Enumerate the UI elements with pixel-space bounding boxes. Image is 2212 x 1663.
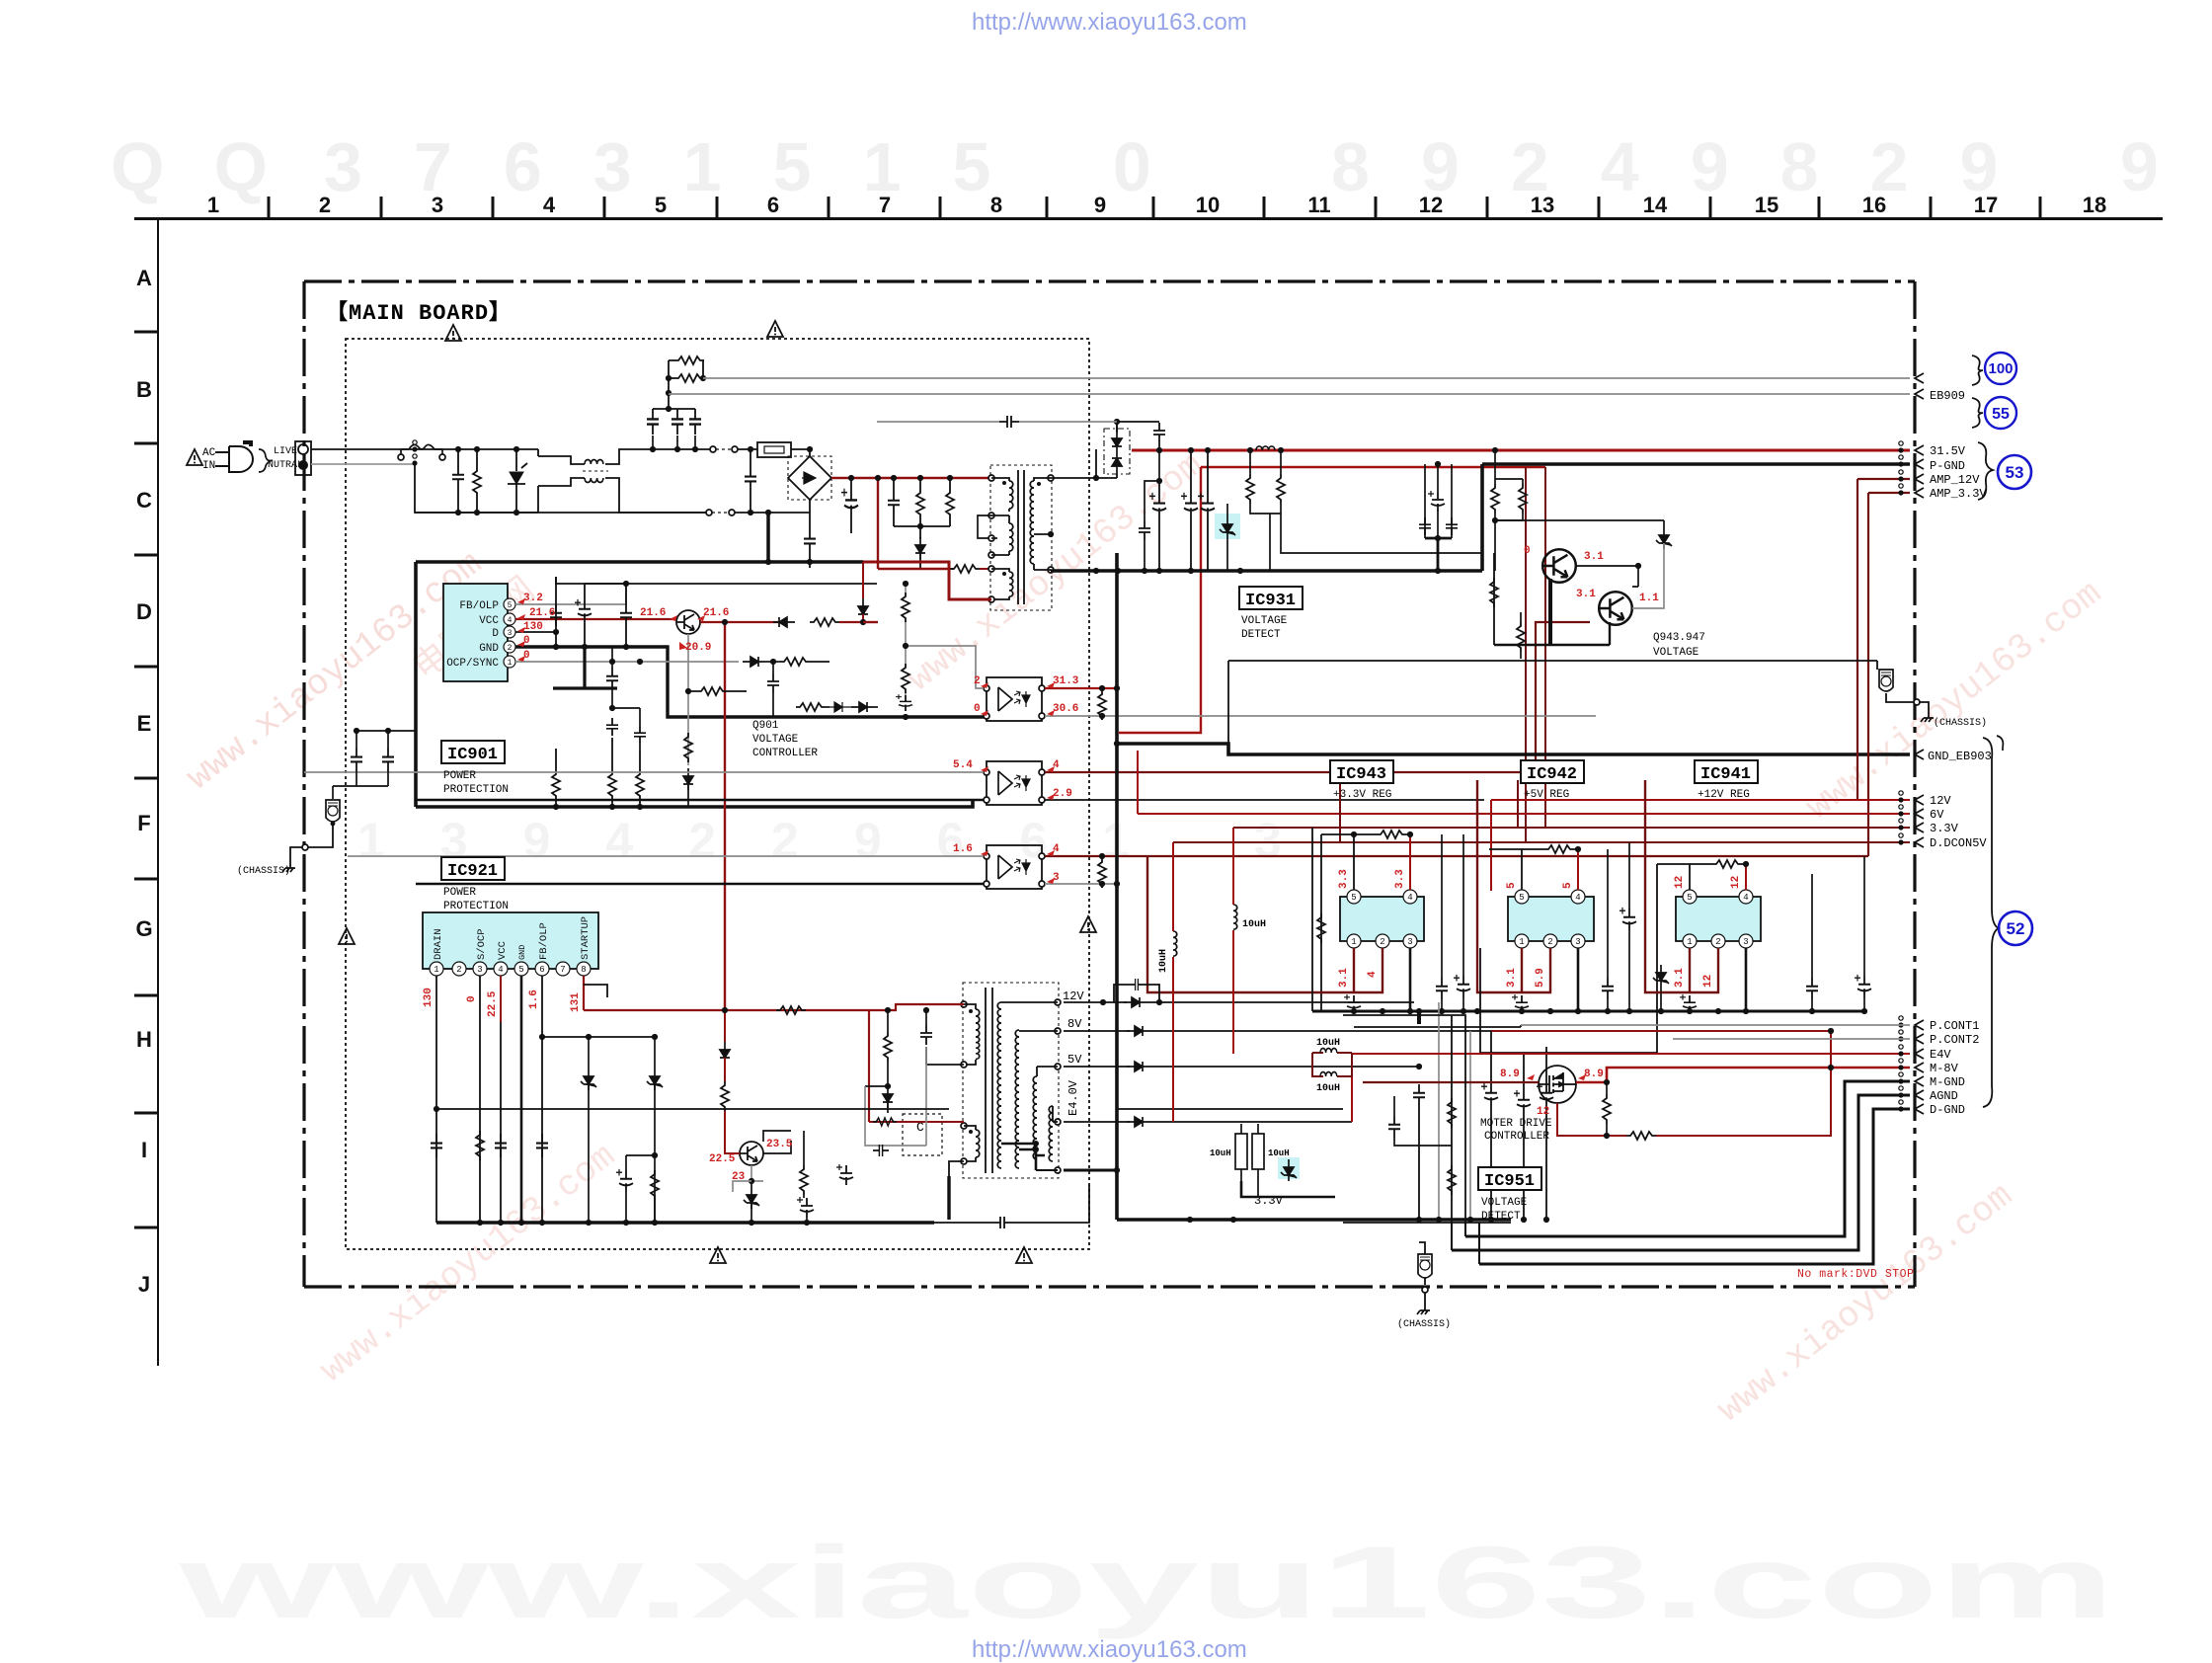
twin diode dash-dot box [1104,429,1130,474]
svg-text:4: 4 [1575,893,1580,903]
svg-text:FB/OLP: FB/OLP [459,600,499,612]
primary winding 2 [1009,523,1013,551]
primary bottom wire to thick black [949,1161,964,1176]
frame inner vertical [1451,1015,1453,1223]
IC931 detect line down [1269,514,1271,571]
svg-text:IC943: IC943 [1336,765,1386,784]
IC931 zener [1220,516,1235,538]
D-GND path [1479,1109,1910,1264]
svg-text:16: 16 [1862,193,1886,217]
junction dots live [455,446,461,452]
AC plug symbol [215,446,253,472]
P.CONT wires under regulators [1354,1026,1521,1028]
tp M-GND [1898,1072,1903,1084]
svg-text:3: 3 [1743,937,1748,947]
regulators bottom gnd bus [1312,1010,1866,1013]
resistor right of mosfet [1603,1094,1611,1124]
3.3V dark rail [1233,827,1910,829]
opto2 output dark red [1045,622,1590,772]
diode in row [851,702,873,712]
svg-text:G: G [135,916,152,941]
svg-text:A: A [136,266,152,290]
IC943 left frame wire [1320,834,1322,1011]
IC921 pin6 drop [541,976,543,1223]
wire from line669 to connector [1876,661,1878,670]
AGND path [1452,1095,1910,1250]
svg-text:GND: GND [517,945,527,960]
tap 12V [1055,999,1061,1005]
varistor [510,472,523,484]
red rail inductor [1256,446,1275,450]
fuse resistor box [757,442,791,457]
zener 2 [647,1069,663,1090]
svg-text:22.5: 22.5 [487,990,499,1017]
svg-text:AC: AC [202,447,216,459]
svg-text:(CHASSIS): (CHASSIS) [1934,717,1987,729]
IC901 label box [441,741,505,763]
arrow 31.5V [1915,445,1924,455]
choke body [538,456,585,486]
tp 31.5V [1898,441,1903,453]
wire from secondary to diode [1096,448,1104,450]
warning triangle mid right [1080,916,1096,932]
OCP/SYNC gray wire [515,661,739,663]
IC921 rotated pin labels [433,916,592,960]
svg-text:12: 12 [1537,1106,1549,1118]
svg-text:VOLTAGE: VOLTAGE [752,734,799,746]
svg-text:E4.0V: E4.0V [1066,1079,1080,1116]
red verticals mid [1172,992,1174,1122]
fb line across [542,1036,655,1038]
line to zener [1495,519,1664,521]
svg-text:C: C [136,488,152,513]
svg-text:www.xiaoyu163.com: www.xiaoyu163.com [178,1526,2115,1640]
P.CONT1 gray wire [1521,1024,1910,1026]
tp AMP_3.3V [1898,484,1903,496]
twin diode bottom [1112,452,1122,474]
svg-text:37631515 0: 37631515 0 [324,128,1203,205]
red feed line 2 to primary [878,568,948,570]
secondary tap mid [1034,533,1051,535]
resistors under IC931 [1490,578,1498,607]
svg-text:OCP/SYNC: OCP/SYNC [446,658,499,670]
warning triangle top 2 [767,321,783,337]
8V tap wire [1064,1030,1130,1032]
svg-text:5: 5 [1506,882,1518,889]
wire aux to opto [865,1047,926,1146]
svg-text:21.6: 21.6 [529,607,555,619]
svg-text:GND_EB903: GND_EB903 [1928,750,1992,763]
E4V out red [1352,1054,1910,1122]
IC921 bottom thick bus [436,1221,934,1224]
red arrows for annotations [517,598,1586,1080]
IC943 body [1340,897,1424,941]
dark red out rail to left [1147,856,1328,992]
svg-text:(CHASSIS): (CHASSIS) [1397,1318,1451,1330]
inductors vertical mid [1173,931,1177,956]
open circles + dashed jumper on live [710,446,716,452]
IC951 gnd bus bottom [1465,1222,1511,1224]
FB/OLP wire [515,584,626,604]
tp P-GND [1898,455,1903,467]
svg-text:B: B [136,377,152,402]
svg-text:VOLTAGE: VOLTAGE [1241,615,1288,627]
IC921 pin circles [430,962,591,976]
svg-text:130: 130 [523,621,543,633]
opto1 resistor right [1098,690,1106,720]
line X-cap cluster top [653,408,695,410]
IC942 caps right [1602,978,1614,999]
chassis connector right [1878,669,1880,671]
secondary col2 [1015,1030,1019,1058]
secondary bottom [1048,567,1054,573]
primary coil 1 [964,1004,976,1009]
Q901 base resistor down [687,634,689,765]
svg-text:2: 2 [974,675,981,687]
IC943 out red down [1328,948,1354,992]
Q901 transistor [676,610,700,634]
brace 53 [1978,442,1993,500]
svg-text:3.3V: 3.3V [1930,822,1959,835]
wire live [311,448,538,450]
resistor [780,658,810,666]
svg-text:12: 12 [1674,876,1686,889]
tp D-GND [1898,1100,1903,1112]
svg-text:+12V REG: +12V REG [1698,789,1750,801]
IC931 out line [1281,514,1482,553]
primary coil 2 [961,1123,967,1129]
svg-text:7: 7 [879,193,891,217]
snubber res 1 [916,489,924,518]
red horiz from IC921 startup [584,1009,869,1011]
svg-text:0: 0 [523,650,530,662]
res on pin3 [476,1131,484,1160]
svg-text:POWER: POWER [443,887,476,899]
C jumper dashed box [903,1114,942,1155]
svg-text:6V: 6V [1930,808,1944,822]
12V red rail [1491,799,1910,801]
5V diode [1127,1062,1148,1071]
zener at Q943 [1656,527,1672,549]
IC901 section thick frame left [414,562,418,807]
svg-text:10uH: 10uH [1210,1148,1231,1158]
red 31.5V rail [1132,449,1910,452]
svg-text:D: D [136,599,152,624]
F-row connector [326,800,340,822]
IC943 ecap out [1344,994,1361,1013]
tp P.CONT2 [1898,1030,1903,1042]
svg-text:F: F [137,811,150,835]
primary tap [988,513,994,518]
ruler left axis [157,219,159,1367]
arrow AMP_12V [1915,474,1924,484]
red feed net to regulators [1201,466,1545,468]
row tick marks [134,332,158,1227]
rectifier output caps [1413,1084,1425,1106]
svg-text:DETECT: DETECT [1481,1211,1521,1223]
svg-text:3.1: 3.1 [1674,968,1686,988]
ecap mid [616,1169,633,1192]
svg-text:8: 8 [581,965,586,975]
svg-text:E4V: E4V [1930,1048,1951,1062]
svg-text:MOTER DRIVE: MOTER DRIVE [1480,1118,1552,1130]
svg-text:GND: GND [479,643,499,655]
sense resistor pair at 31.5V rail [1495,450,1523,484]
big brace 52 [1983,738,1999,1107]
mosfet source down + red loop [1557,1103,1626,1136]
svg-text:6: 6 [767,193,779,217]
svg-text:IC942: IC942 [1527,765,1577,784]
warning triangle mid (G row) [339,928,355,944]
svg-text:1: 1 [1519,937,1524,947]
svg-text:18: 18 [2083,193,2106,217]
IC942 body [1508,897,1594,941]
cap mid [606,668,618,689]
svg-text:【MAIN BOARD】: 【MAIN BOARD】 [326,300,512,326]
svg-text:4: 4 [1743,893,1748,903]
tap jog [978,515,991,538]
pin8 black stub right [584,985,607,997]
opto3 in wires [348,855,984,857]
12V reg out rail left drop [1645,780,1661,992]
bracket GND_EB903 [1997,736,2003,751]
AMP_3.3V dark red wire [1868,492,1910,494]
IC942 5V feed from 12V? vertical [1577,814,1579,849]
cap in gray wire [999,416,1019,428]
svg-text:http://www.xiaoyu163.com: http://www.xiaoyu163.com [972,1636,1247,1663]
cap across after jumper [750,449,751,513]
main vertical thick bus x1131 [1115,553,1119,1220]
svg-text:31.5V: 31.5V [1930,444,1966,458]
bridge minus to return [809,512,810,514]
opto2 lower black [1045,799,1484,801]
arrow AGND [1915,1090,1924,1100]
sec rail caps right [1198,493,1215,517]
thick drop from frame to transformer primary gnd [863,562,991,599]
svg-text:52: 52 [2007,919,2025,938]
svg-text:3.3: 3.3 [1394,869,1406,889]
diode top feeds up [1117,422,1159,433]
svg-text:2: 2 [1380,937,1384,947]
svg-text:12: 12 [1419,193,1443,217]
gray feedback wire top [877,421,1117,423]
opto1 in top wire [907,646,984,688]
svg-text:http://www.xiaoyu163.com: http://www.xiaoyu163.com [972,9,1247,36]
svg-text:4: 4 [1367,971,1379,978]
svg-text:21.6: 21.6 [703,607,729,619]
svg-text:Q943.947: Q943.947 [1653,632,1705,644]
GND pin thick wire [515,647,987,717]
D.DCON5V dark rail [1173,841,1910,843]
svg-text:DETECT: DETECT [1241,629,1281,641]
svg-text:4: 4 [498,965,503,975]
cap on pin4 [495,1134,507,1157]
IC942 out [1493,948,1522,992]
arrow M-8V [1915,1063,1924,1072]
svg-text:CONTROLLER: CONTROLLER [752,748,818,759]
svg-text:5: 5 [508,601,513,610]
bottom connector symbol [1418,1254,1432,1278]
bridge rectifier D901 dashed box [788,456,831,500]
pink diagonal watermark left [180,444,2110,1430]
IC943 top feed wires [1321,834,1354,890]
svg-text:10uH: 10uH [1316,1083,1340,1094]
IC921 pin5 drop [520,976,523,1223]
primary winding 1 [991,478,1009,481]
svg-text:POWER: POWER [443,770,476,782]
svg-text:3.3: 3.3 [1338,869,1350,889]
svg-text:12V: 12V [1063,990,1084,1003]
svg-text:VCC: VCC [497,941,509,960]
arrow P.CONT2 [1915,1034,1924,1044]
svg-text:12V: 12V [1930,794,1951,808]
MOSFET Q951 [1539,1066,1576,1103]
svg-text:10uH: 10uH [1158,949,1169,973]
svg-text:4: 4 [508,616,513,625]
T902 primary pin top [961,1001,967,1007]
E4V diode [1127,1117,1148,1127]
svg-text:I: I [141,1138,147,1162]
out rail to left x1512 [1477,780,1493,992]
svg-text:10uH: 10uH [1316,1038,1340,1049]
bottom return wire [415,512,709,514]
cap3 [620,604,632,626]
diode after Q901 [773,617,795,627]
thick vert right of T902 [1128,1122,1130,1220]
svg-text:10uH: 10uH [1242,919,1266,930]
opto3 output dark red [1045,855,1868,857]
svg-text:AMP_12V: AMP_12V [1930,473,1980,487]
svg-text:5.9: 5.9 [1535,968,1546,988]
resistors on frame [1448,1098,1456,1128]
tp DCON5V [1898,833,1903,845]
ruler numbers [207,193,2106,217]
snubber diode [915,537,925,559]
svg-text:1: 1 [207,193,219,217]
IC943 gnd pin3 [1409,948,1412,1011]
P-GND filter cluster [1425,464,1452,538]
core lines [1018,470,1024,604]
thick drop to bus center [1417,1011,1421,1024]
IC941 out [1661,948,1690,992]
primary winding 3 [988,566,994,572]
bleeder resistor R2 [669,377,674,379]
svg-text:2: 2 [1715,937,1720,947]
svg-text:1.6: 1.6 [528,990,540,1009]
svg-text:23.5: 23.5 [766,1139,793,1150]
neutral step to choke [415,464,538,513]
svg-text:100: 100 [1988,360,2013,377]
connect to red vertical x889 [877,569,879,622]
secondary col4 [1049,1106,1053,1134]
svg-text:2: 2 [456,965,461,975]
D pin wire [515,631,556,633]
svg-text:5.4: 5.4 [953,759,973,771]
Q922 transistor [740,1142,763,1165]
cap on pin1 [431,1134,442,1157]
svg-text:4: 4 [1407,893,1412,903]
Q947 emitter down [1609,622,1611,645]
row letters [135,266,152,1297]
long gray wire EB909 [669,393,1910,395]
resistor across top [1354,833,1377,835]
10uH parallel pair box right [1241,1124,1258,1134]
svg-text:IC921: IC921 [447,862,498,881]
tap 8V [1055,1028,1061,1034]
svg-text:3: 3 [1575,937,1580,947]
svg-text:20.9: 20.9 [685,642,711,654]
arrow P-GND [1915,459,1924,469]
red wire through C [869,1121,964,1123]
svg-text:M-GND: M-GND [1930,1075,1965,1089]
svg-text:5: 5 [1687,893,1692,903]
IC921 pin8 red drop to startup [583,976,585,1010]
arrow DCON5V [1915,837,1924,847]
E4V tap wire [1064,1121,1130,1123]
svg-text:J: J [138,1272,150,1297]
vcc rail to red vert [863,621,878,623]
IC901 pin labels [446,600,499,670]
svg-text:4: 4 [1053,759,1060,771]
opto3 lower gray [1045,883,1117,885]
sec filter ecap2 [1181,493,1198,517]
res mid [651,1170,659,1200]
lower resistors row [552,770,560,800]
svg-text:3.1: 3.1 [1584,551,1604,563]
svg-text:5: 5 [1562,882,1574,889]
arrow 3.3V [1915,823,1924,832]
IC921 body cyan [423,912,598,969]
MAIN BOARD dash-dot border [304,279,1915,282]
red elbow to T902 primary [869,1004,964,1010]
fuse open circles [398,454,404,460]
svg-text:22.5: 22.5 [709,1153,736,1165]
gray line through zener region [1241,1181,1335,1197]
svg-text:IC931: IC931 [1245,592,1296,610]
svg-text:P-GND: P-GND [1930,459,1965,473]
diode down feed [883,1086,893,1108]
ruler top line [134,217,2163,220]
IC931 input resistor pair [1269,464,1271,494]
transformer dashed box [990,465,1052,610]
optocoupler PH901 [987,677,1042,721]
svg-text:3.1: 3.1 [1576,589,1596,600]
svg-text:53: 53 [2006,463,2024,482]
svg-text:13: 13 [1531,193,1554,217]
svg-text:0: 0 [466,995,478,1002]
svg-text:5: 5 [1519,893,1524,903]
svg-text:5V: 5V [1067,1053,1082,1067]
resistor across line [473,467,481,497]
secondary top wire going right then up [1051,449,1096,478]
svg-text:0: 0 [1524,545,1531,557]
IC941 body [1676,897,1761,941]
arrow AMP_3.3V [1915,488,1924,498]
svg-text:8.9: 8.9 [1500,1069,1520,1080]
svg-text:0: 0 [974,703,981,715]
IC901 regulator cyan body [443,584,508,681]
svg-text:3: 3 [1407,937,1412,947]
warning triangle bottom 1 [710,1247,726,1263]
svg-text:131: 131 [570,992,582,1012]
svg-text:VOLTAGE: VOLTAGE [1653,647,1699,659]
cap 3 [689,409,701,435]
Q922 collector wire right [763,1131,791,1153]
red vertical long drop x734 [724,622,726,1010]
svg-text:AGND: AGND [1930,1089,1958,1103]
D.DCON5V drop [1339,780,1341,842]
svg-text:11: 11 [1307,193,1330,217]
